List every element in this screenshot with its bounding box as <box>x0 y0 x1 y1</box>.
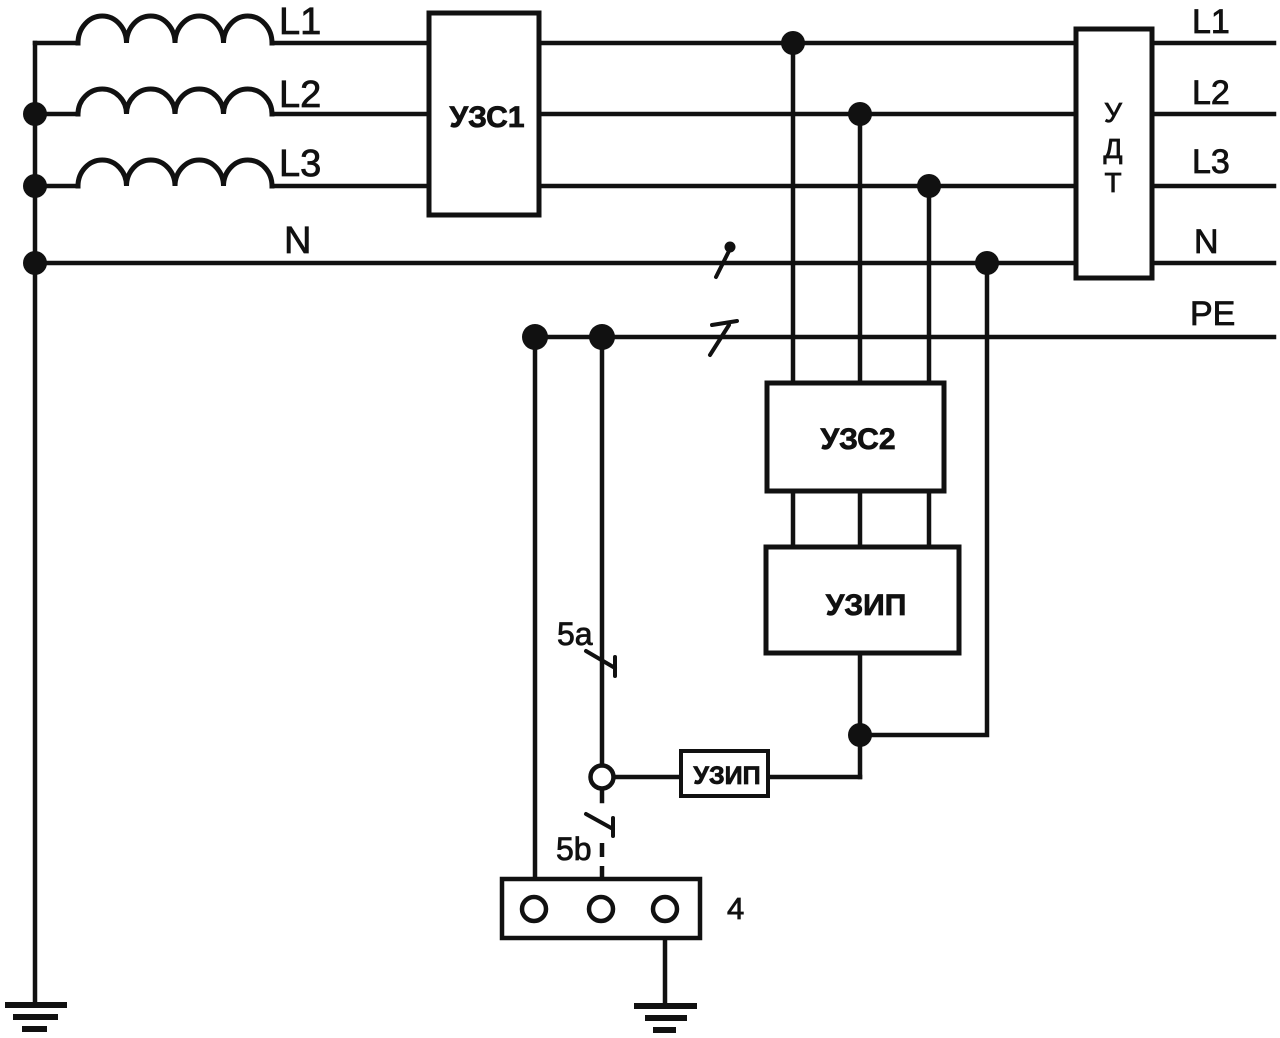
ground bottom <box>634 1006 697 1030</box>
wire drop from L2 to UZS2 <box>858 114 863 383</box>
svg-text:N: N <box>284 220 311 262</box>
inductor coil L3 <box>78 160 272 186</box>
junction dot N drop <box>975 251 999 275</box>
wire L2 UZS1 to UDT <box>539 112 1076 117</box>
wire drop from L1 to UZS2 <box>791 43 796 383</box>
wire UZIP bottom down to horizontal <box>858 653 863 777</box>
wire left vertical bus <box>33 43 38 1004</box>
inductor coil L2 <box>78 89 272 114</box>
PE line break slash <box>710 321 737 355</box>
box UZS2 <box>767 383 944 491</box>
wire L1 left segment <box>35 41 78 46</box>
svg-text:УЗИП: УЗИП <box>826 589 907 622</box>
wire open circle to small UZIP box <box>614 775 681 780</box>
open circle contact <box>591 766 614 789</box>
wire horizontal to small UZIP box <box>768 775 860 780</box>
wire L3 coil to UZS1 <box>272 184 429 189</box>
wire UZS2 to UZIP connector 1 <box>791 491 796 547</box>
box UZIP main <box>766 547 959 653</box>
svg-text:5a: 5a <box>557 616 593 652</box>
svg-text:L3: L3 <box>1192 143 1230 181</box>
wire L1 UZS1 to UDT <box>539 41 1076 46</box>
svg-text:L3: L3 <box>279 143 321 185</box>
svg-text:УЗИП: УЗИП <box>693 762 760 790</box>
junction dot L1 drop <box>781 31 805 55</box>
wire terminal 3 to ground <box>663 921 668 1004</box>
svg-text:5b: 5b <box>556 831 592 867</box>
wire L1 right output <box>1152 41 1274 46</box>
wire L2 left segment <box>35 112 78 117</box>
junction dot L3 left <box>23 174 47 198</box>
dashed link 5b to terminal <box>600 843 605 899</box>
junction dot L2 drop <box>848 102 872 126</box>
svg-text:УЗС2: УЗС2 <box>820 423 895 456</box>
ground left <box>5 1005 67 1029</box>
wire drop from L3 to UZS2 <box>927 186 932 383</box>
wire drop from N down and left to junction <box>860 263 987 735</box>
terminal block 4 <box>502 879 700 938</box>
box UDT <box>1076 29 1152 278</box>
box UZIP small <box>681 751 768 796</box>
svg-text:4: 4 <box>727 891 744 926</box>
wire L3 right output <box>1152 184 1274 189</box>
svg-text:Т: Т <box>1104 167 1121 198</box>
svg-text:L2: L2 <box>279 74 321 116</box>
junction dot N left <box>23 251 47 275</box>
wire UZS2 to UZIP connector 3 <box>927 491 932 547</box>
contact 5b tick <box>586 814 613 836</box>
box UZS1 <box>429 13 539 215</box>
wire switch 5a vertical from PE <box>600 337 605 765</box>
svg-text:УЗС1: УЗС1 <box>449 101 524 134</box>
wire left drop from PE to terminal 1 <box>533 337 538 895</box>
junction dot PE 1 <box>522 324 548 350</box>
N line break slash <box>716 242 736 278</box>
junction dot L2 left <box>23 102 47 126</box>
svg-text:L2: L2 <box>1192 74 1230 112</box>
inductor coil L1 <box>78 16 272 43</box>
wire UZS2 to UZIP connector 2 <box>858 491 863 547</box>
wire L1 coil to UZS1 <box>272 41 429 46</box>
wire N line <box>35 261 1076 266</box>
junction dot L3 drop <box>917 174 941 198</box>
wire N right output <box>1152 261 1274 266</box>
wire L3 left segment <box>35 184 78 189</box>
contact 5a tick <box>586 651 615 676</box>
svg-text:PE: PE <box>1190 295 1235 333</box>
svg-text:У: У <box>1104 97 1122 128</box>
wire L2 right output <box>1152 112 1274 117</box>
junction dot UZIP lower <box>848 723 872 747</box>
junction dot PE 2 <box>589 324 615 350</box>
svg-text:L1: L1 <box>1192 3 1230 41</box>
svg-text:N: N <box>1194 223 1219 261</box>
wire PE line <box>535 335 1274 340</box>
wire stub below open circle <box>600 789 605 801</box>
svg-text:L1: L1 <box>279 1 321 43</box>
wire L2 coil to UZS1 <box>272 112 429 117</box>
svg-text:Д: Д <box>1104 133 1123 164</box>
wire L3 UZS1 to UDT <box>539 184 1076 189</box>
